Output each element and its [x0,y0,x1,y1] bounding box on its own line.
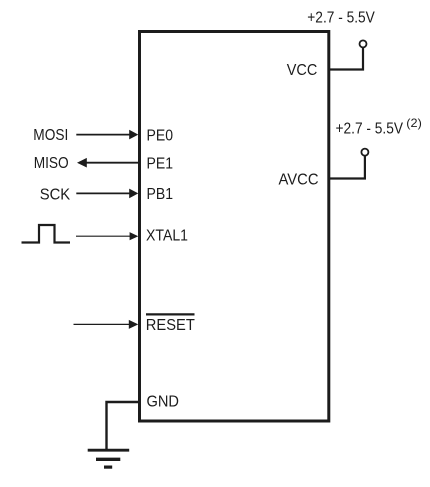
ground symbol [88,450,130,467]
svg-text:AVCC: AVCC [279,172,319,189]
svg-text:XTAL1: XTAL1 [146,228,188,245]
wire arrow clock to XTAL1 [76,232,138,240]
wire VCC to terminal [329,48,364,70]
svg-text:PE0: PE0 [147,128,174,145]
svg-text:RESET: RESET [146,317,195,334]
wire arrow PE1 to MISO [77,158,139,168]
svg-text:MOSI: MOSI [33,127,68,144]
wire arrow to RESET [74,320,139,329]
svg-text:GND: GND [147,394,180,411]
svg-text:+2.7 - 5.5V: +2.7 - 5.5V [336,121,404,138]
terminal circle VCC [360,40,367,47]
RESET overline [146,313,195,315]
svg-text:MISO: MISO [34,155,69,172]
wire arrow SCK to PB1 [76,189,138,199]
svg-text:+2.7 - 5.5V: +2.7 - 5.5V [307,9,375,26]
terminal circle AVCC [361,149,368,156]
svg-text:PB1: PB1 [147,186,174,203]
svg-text:PE1: PE1 [147,156,174,173]
wire AVCC to terminal [329,156,365,179]
wire GND to ground [107,402,140,449]
svg-text:VCC: VCC [287,62,318,79]
clock pulse symbol [22,225,71,243]
svg-text:SCK: SCK [40,186,71,203]
svg-text:(2): (2) [406,116,422,130]
wire arrow MOSI to PE0 [76,130,138,140]
IC body U1 [140,32,329,422]
